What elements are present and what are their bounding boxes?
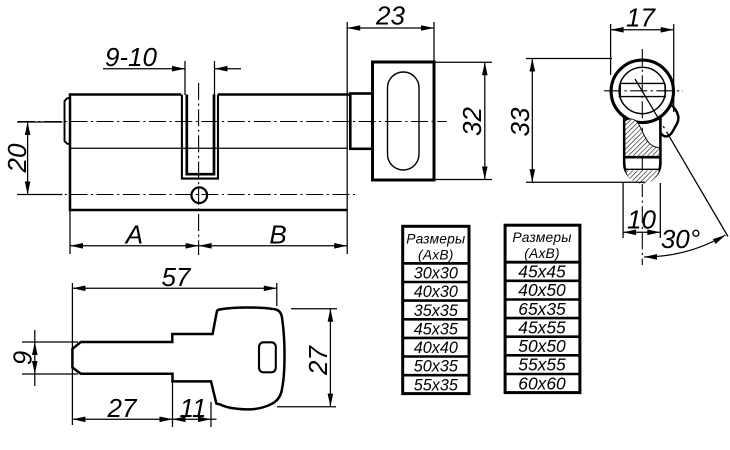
30 deg ray [635,79,728,237]
dimension 57 [72,262,276,425]
vertical centerline cam [198,83,200,255]
svg-text:40х50: 40х50 [518,280,566,300]
svg-text:20: 20 [2,143,32,173]
dimension 23 [347,1,434,62]
dimension 27 right [277,309,337,407]
thumbturn grip slot [388,72,420,170]
horizontal centerline end view [604,90,683,92]
thin chord line [625,168,660,170]
centerline axis 1 [18,121,447,123]
table 2 [505,225,580,393]
svg-text:55х35: 55х35 [414,376,459,394]
dividing thick line [624,156,660,159]
body walls [624,115,660,164]
table 1 [403,226,469,394]
svg-text:9: 9 [8,351,38,365]
cylinder body outline [70,22,350,254]
dimension 27 bottom and 11 [72,381,216,427]
svg-text:65х35: 65х35 [518,299,566,319]
svg-text:A: A [124,220,143,250]
thumbturn knob [373,62,435,180]
dimension A B [70,211,347,254]
svg-text:45х55: 45х55 [518,317,566,337]
svg-text:27: 27 [107,393,138,423]
plug outer circle [611,60,673,122]
svg-text:45х45: 45х45 [518,262,566,282]
svg-text:30°: 30° [661,224,700,254]
rotated fin stub [661,104,679,137]
svg-text:10: 10 [627,205,656,235]
svg-text:30х30: 30х30 [414,265,458,283]
svg-text:40х30: 40х30 [414,283,458,301]
svg-text:57: 57 [162,262,192,292]
svg-text:40х40: 40х40 [414,339,458,357]
front cap [65,98,71,144]
hatch lower cap [626,171,659,184]
key hole [259,342,276,372]
svg-text:B: B [269,220,286,250]
svg-text:50х50: 50х50 [518,336,566,356]
break S-curve [624,119,660,148]
svg-text:35х35: 35х35 [414,302,459,320]
svg-text:(АхВ): (АхВ) [524,246,560,261]
svg-text:Размеры: Размеры [512,230,571,245]
fixing screw hole [192,187,208,203]
svg-text:50х35: 50х35 [414,358,459,376]
vertical centerline end view [641,49,643,265]
svg-text:33: 33 [505,107,535,136]
svg-text:17: 17 [626,3,656,33]
30 deg arc [644,224,727,260]
dimension 17 [611,3,674,113]
plug inner circle [619,67,665,113]
key outline [72,307,284,409]
svg-text:23: 23 [375,1,405,31]
dimension 10 [623,183,660,238]
neck [350,94,372,149]
bottom cap arc [624,164,660,182]
hatch upper region [625,119,659,155]
svg-text:45х35: 45х35 [414,320,459,338]
cam notch [182,95,218,179]
centerline axis 2 [18,194,356,196]
svg-text:11: 11 [180,393,207,423]
svg-text:(АхВ): (АхВ) [418,248,454,263]
svg-text:32: 32 [457,107,487,136]
svg-text:60х60: 60х60 [518,373,566,393]
dimension 33 [505,59,645,183]
dimension 9 [8,330,79,386]
dimension 20 [2,122,63,195]
svg-text:55х55: 55х55 [518,355,566,375]
svg-text:9-10: 9-10 [105,42,158,72]
dimension 9-10 [103,42,241,95]
svg-text:27: 27 [303,345,333,376]
dimension 32 [435,62,492,179]
svg-text:Размеры: Размеры [406,232,465,247]
keyway slot [619,83,666,96]
